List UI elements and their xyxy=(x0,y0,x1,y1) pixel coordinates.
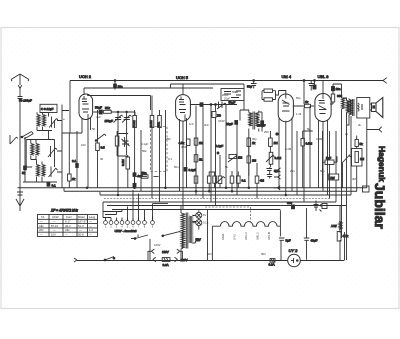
trimmer bank 2 xyxy=(122,112,131,155)
svg-text:TA: TA xyxy=(41,215,45,219)
coil B2 xyxy=(36,144,39,156)
svg-text:1M: 1M xyxy=(360,157,365,161)
svg-text:ZS: ZS xyxy=(217,114,221,118)
svg-text:20μF: 20μF xyxy=(226,122,233,126)
wires A xyxy=(37,112,52,130)
selector switch lever xyxy=(163,231,183,249)
cap 10nF xyxy=(332,87,335,91)
coil C1 xyxy=(37,165,40,177)
tube UCH5 pins xyxy=(180,84,187,209)
speaker field coil xyxy=(358,103,363,111)
wire x=77 xyxy=(76,131,78,188)
wire x297 xyxy=(296,131,298,195)
svg-text:50p: 50p xyxy=(296,96,301,100)
tube UM4 electrodes xyxy=(282,95,290,112)
trimmer A xyxy=(49,117,58,129)
resistor bottomrow 5 xyxy=(237,176,241,183)
svg-text:0.2M: 0.2M xyxy=(285,147,292,151)
svg-text:UM 4: UM 4 xyxy=(282,74,292,79)
tone switch xyxy=(343,136,357,192)
svg-text:Hagenuk: Hagenuk xyxy=(377,146,387,182)
wires drops UCH5 right xyxy=(196,105,226,206)
svg-text:5μF: 5μF xyxy=(286,239,291,243)
choke bottom xyxy=(339,222,342,230)
svg-text:0.1: 0.1 xyxy=(242,179,247,183)
svg-text:600: 600 xyxy=(337,94,342,98)
trimmer B xyxy=(48,146,57,157)
dial lamp 1 xyxy=(196,212,202,218)
table frame xyxy=(38,215,98,237)
junction dots xyxy=(210,104,212,106)
power transformer winding left xyxy=(181,213,185,248)
resistor bottomrow 4 xyxy=(230,176,234,183)
bus b7 xyxy=(112,209,280,211)
wires xyxy=(293,105,314,107)
coil C2 xyxy=(42,165,45,177)
svg-text:UCL3: UCL3 xyxy=(244,232,248,240)
resistor 0.3M mid xyxy=(126,157,130,169)
box contents xyxy=(224,91,241,98)
wires resistor tops xyxy=(118,96,166,203)
switch contacts left xyxy=(20,132,34,140)
junction UBL xyxy=(314,80,316,82)
resistor 4.5k xyxy=(186,139,190,146)
tube UM4 pins xyxy=(279,118,292,196)
grid box UM4 xyxy=(221,89,244,101)
tube UCH5 xyxy=(176,95,191,122)
cap blob left xyxy=(24,166,27,170)
junction dots buses xyxy=(225,187,227,189)
resistor right of UM4 xyxy=(305,104,311,107)
svg-text:100: 100 xyxy=(81,143,86,147)
svg-text:10n: 10n xyxy=(336,87,341,91)
mains plug xyxy=(74,258,77,262)
wire x=69.4 xyxy=(68,133,70,188)
cap blob 1nF xyxy=(200,103,203,107)
UKW terminals xyxy=(104,216,155,225)
svg-text:5nF: 5nF xyxy=(326,156,331,160)
bus y=95.5 xyxy=(88,94,151,96)
svg-text:UBL 3: UBL 3 xyxy=(318,74,330,79)
pot agc xyxy=(269,152,273,164)
resistor bottomrow 2 xyxy=(207,176,211,183)
junction blob IF2 xyxy=(276,133,278,135)
IF2 core xyxy=(253,112,255,130)
svg-text:0.1μF: 0.1μF xyxy=(141,142,148,146)
antenna xyxy=(11,74,29,96)
capacitor C-ant plates xyxy=(18,97,23,134)
output transformer secondary xyxy=(349,99,352,117)
wire to trimmers xyxy=(111,111,135,113)
speaker frame box xyxy=(357,98,370,119)
volume pot xyxy=(229,155,237,159)
tube UCH2 xyxy=(79,94,93,120)
trimmer right of UCH5 xyxy=(217,102,227,110)
wires mid cluster xyxy=(117,131,158,188)
box AW2 xyxy=(363,186,370,192)
selector lower arrows xyxy=(153,257,178,261)
svg-text:Mittel: Mittel xyxy=(78,215,85,219)
svg-text:4M: 4M xyxy=(352,177,357,181)
svg-text:0.5M: 0.5M xyxy=(306,142,313,146)
tube UCH2 electrodes xyxy=(82,96,89,120)
svg-text:250pF: 250pF xyxy=(257,124,266,128)
bus b2 xyxy=(64,190,357,192)
resistor anode 2 xyxy=(194,155,198,162)
IF2 wires xyxy=(237,84,262,195)
IF2 caps xyxy=(235,121,238,125)
svg-text:0.2A: 0.2A xyxy=(269,263,275,267)
transformer drops xyxy=(347,116,352,261)
cap blob bottom xyxy=(47,183,50,186)
svg-text:1M: 1M xyxy=(274,141,279,145)
bus b5 xyxy=(103,201,336,203)
svg-text:—: — xyxy=(40,233,43,237)
lamp labels xyxy=(203,213,209,225)
svg-text:20μF: 20μF xyxy=(222,93,229,97)
resistor anode 1 xyxy=(194,138,198,145)
svg-text:UKW: UKW xyxy=(218,119,225,123)
resistor 50n horizontal xyxy=(142,175,149,178)
speaker horn xyxy=(376,98,383,118)
svg-text:1k: 1k xyxy=(199,158,203,162)
resistor box b xyxy=(264,98,273,101)
svg-text:0.5: 0.5 xyxy=(101,146,106,150)
resistor mid xyxy=(115,136,119,146)
junction bus xyxy=(253,80,255,82)
svg-text:1M: 1M xyxy=(238,156,243,160)
svg-text:50: 50 xyxy=(92,127,96,131)
svg-text:1M: 1M xyxy=(199,141,204,145)
svg-text:Lang: Lang xyxy=(89,215,96,219)
svg-text:UM4: UM4 xyxy=(221,233,225,240)
svg-text:UKW - Anschluß: UKW - Anschluß xyxy=(115,229,137,233)
svg-text:—: — xyxy=(89,233,92,237)
svg-text:30: 30 xyxy=(100,157,104,161)
svg-text:150pF: 150pF xyxy=(105,119,114,123)
svg-text:UCH5: UCH5 xyxy=(267,232,271,240)
speaker magnet xyxy=(372,103,377,112)
decoupling cap xyxy=(251,81,257,89)
svg-text:51k: 51k xyxy=(157,122,161,127)
heater labels xyxy=(221,232,271,240)
coil A2 xyxy=(43,115,46,127)
cap at bus x115 xyxy=(114,80,116,82)
svg-text:20μF: 20μF xyxy=(224,97,230,101)
tube UBL3 xyxy=(315,94,331,122)
tube UM4 xyxy=(278,94,293,122)
wire UCH5 anode xyxy=(190,104,237,106)
power transformer winding right xyxy=(189,216,192,243)
bus b3 xyxy=(100,194,351,196)
coupling cap top xyxy=(99,110,102,114)
svg-text:50pF: 50pF xyxy=(229,101,236,105)
heater chain wire xyxy=(208,210,221,261)
svg-text:50n: 50n xyxy=(142,171,147,175)
svg-text:4.7k: 4.7k xyxy=(343,234,349,238)
jack TA3 xyxy=(274,186,281,190)
wire x=302.7 xyxy=(303,131,313,188)
svg-text:C 0-12pF: C 0-12pF xyxy=(41,107,54,111)
svg-text:25n: 25n xyxy=(290,169,295,173)
resistor 5k right xyxy=(355,140,358,147)
resistor bottomrow 3 xyxy=(213,176,217,183)
coil B1 xyxy=(31,144,34,156)
svg-text:1k: 1k xyxy=(72,177,76,181)
svg-text:4M: 4M xyxy=(260,179,265,183)
svg-text:50n: 50n xyxy=(320,169,325,173)
tone resistor inside xyxy=(355,152,358,163)
svg-text:30p: 30p xyxy=(252,137,257,141)
wire tube to cap xyxy=(93,111,103,113)
wire bus drop x=70 xyxy=(69,81,71,134)
UY2 electrodes xyxy=(291,258,298,263)
resistor 0.5M left xyxy=(301,139,304,147)
mains line xyxy=(77,260,345,262)
svg-text:0.3M: 0.3M xyxy=(121,159,125,166)
svg-text:1k: 1k xyxy=(305,100,309,104)
coil A1 xyxy=(37,115,40,127)
resistor det 2 xyxy=(247,156,251,163)
tube UCH5 electrodes xyxy=(179,97,186,121)
table columns xyxy=(49,215,88,237)
mains switch xyxy=(105,257,114,261)
tube UBL3 pins xyxy=(315,81,328,196)
label box C 0-12pF xyxy=(40,104,57,112)
heater chain right xyxy=(277,210,280,236)
svg-text:A/W: A/W xyxy=(331,224,337,228)
svg-text:48μF: 48μF xyxy=(311,239,318,243)
resistor 51k horizontal xyxy=(103,110,111,113)
box AW xyxy=(329,174,339,180)
svg-text:0.1: 0.1 xyxy=(168,157,172,161)
cap blob 0.1 xyxy=(184,168,187,172)
grid cap UBL xyxy=(313,85,316,89)
svg-text:3nF: 3nF xyxy=(204,123,209,127)
svg-text:100: 100 xyxy=(51,233,56,237)
band switch lower xyxy=(131,235,150,261)
resistor R-ag xyxy=(96,143,100,151)
tube UCH2 pins xyxy=(82,117,91,188)
svg-text:1nF: 1nF xyxy=(189,122,194,126)
wire bus-b1 left xyxy=(18,187,368,189)
svg-text:0.3M: 0.3M xyxy=(316,137,323,141)
choke 600ohm xyxy=(342,84,345,238)
trimmer bank 1 xyxy=(114,112,123,128)
wire x=87-97 drops xyxy=(62,110,98,188)
wire right edge cluster xyxy=(40,105,69,188)
voltage selector top xyxy=(148,249,182,260)
svg-text:0.5M: 0.5M xyxy=(181,145,188,149)
ground xyxy=(16,188,24,211)
terminal box small xyxy=(322,204,327,209)
svg-text:50-8: 50-8 xyxy=(78,233,84,237)
wire UM4 top xyxy=(279,91,286,96)
svg-text:6V: 6V xyxy=(203,213,206,217)
cluster frame xyxy=(26,140,54,168)
svg-text:0.8A: 0.8A xyxy=(163,263,169,267)
output transformer primary xyxy=(342,98,350,116)
resistor R-k xyxy=(68,174,72,181)
wire x=84 to tube xyxy=(83,88,85,95)
wire x310 xyxy=(309,106,311,188)
svg-text:Jubilar: Jubilar xyxy=(372,183,388,229)
jack TA1 xyxy=(274,168,281,172)
resistor box a xyxy=(264,89,273,92)
bus b6 xyxy=(107,205,347,207)
svg-text:+: + xyxy=(320,203,322,207)
wire mid right xyxy=(336,81,346,202)
wire x=270.5 xyxy=(269,131,271,167)
transformer wires xyxy=(181,206,200,261)
svg-text:4μF: 4μF xyxy=(96,115,101,119)
svg-text:50k: 50k xyxy=(142,149,147,153)
bus drops left xyxy=(64,187,100,195)
resistor bottomrow 6 xyxy=(255,176,259,183)
dashed heater feed xyxy=(205,207,251,222)
table text xyxy=(39,215,96,237)
svg-text:220V: 220V xyxy=(181,258,188,262)
svg-text:UKW: UKW xyxy=(52,215,59,219)
trimmer C xyxy=(49,167,58,178)
svg-text:250: 250 xyxy=(264,130,269,134)
svg-text:0.3M: 0.3M xyxy=(132,120,136,127)
svg-text:Kurz: Kurz xyxy=(66,215,72,219)
svg-text:50n: 50n xyxy=(174,165,179,169)
svg-text:50-100pF: 50-100pF xyxy=(19,99,32,103)
wires boxes xyxy=(262,91,279,100)
UKW numbers xyxy=(105,225,154,229)
svg-text:UY 2: UY 2 xyxy=(289,248,299,253)
heater humps xyxy=(220,222,277,227)
box ZS xyxy=(212,112,216,118)
bus y=88 xyxy=(84,87,213,89)
fuse xyxy=(162,258,170,262)
caps 5uF diagonal xyxy=(267,167,273,178)
resistor 0.3M v1 xyxy=(133,116,137,128)
svg-text:0.1: 0.1 xyxy=(72,159,77,163)
switch near UCH2 xyxy=(96,134,106,141)
resistor agc xyxy=(269,138,273,146)
svg-text:25k: 25k xyxy=(166,137,171,141)
wire antenna to bus xyxy=(19,133,21,188)
wires cluster B C xyxy=(25,137,42,182)
wires UBL right xyxy=(330,84,342,104)
svg-text:10n: 10n xyxy=(118,85,123,89)
resistor det 1 xyxy=(247,138,251,146)
extra value labels xyxy=(63,90,362,256)
jack TA2 xyxy=(274,175,281,179)
svg-text:UCH 2: UCH 2 xyxy=(79,74,92,79)
vertical x=304 xyxy=(303,81,305,203)
cap 600 xyxy=(292,205,295,209)
resistor 51k v3 xyxy=(158,116,162,128)
svg-text:51k: 51k xyxy=(105,106,110,110)
IF2 transformer coils xyxy=(249,113,259,127)
UKW terminal wires bundle xyxy=(103,190,168,221)
trimmer mid xyxy=(122,137,130,147)
capacitor 0.1uF xyxy=(76,164,79,168)
svg-text:0.1: 0.1 xyxy=(52,184,57,188)
svg-text:0.1μF: 0.1μF xyxy=(216,144,224,148)
dial lamp 2 xyxy=(196,220,202,226)
resistor 0.3M v2 xyxy=(150,116,154,128)
tube UBL3 electrodes xyxy=(319,95,327,114)
wires cluster bottom xyxy=(23,181,57,183)
table rows xyxy=(38,219,98,232)
svg-text:1M: 1M xyxy=(252,159,257,163)
svg-text:UCH 5: UCH 5 xyxy=(176,75,189,80)
speaker dot xyxy=(373,106,375,108)
bus b4 dashed xyxy=(104,198,330,200)
svg-text:AW: AW xyxy=(330,176,335,180)
wires 5nF xyxy=(323,131,338,199)
cap 48uF xyxy=(304,208,310,260)
decoupling cap 2 xyxy=(309,81,315,91)
svg-text:600: 600 xyxy=(287,201,292,205)
switch far left xyxy=(10,135,18,144)
svg-text:UBL3: UBL3 xyxy=(256,232,260,240)
transformer core xyxy=(353,99,354,116)
jack Y xyxy=(367,127,382,133)
speaker wires xyxy=(367,104,372,188)
svg-text:110V: 110V xyxy=(162,250,169,254)
wires bottomrow xyxy=(196,145,257,198)
resistor 0.3M right xyxy=(331,94,334,102)
svg-text:1.2k: 1.2k xyxy=(296,112,302,116)
junction xyxy=(21,136,23,138)
svg-text:0.3M: 0.3M xyxy=(149,120,153,127)
svg-text:ZF = 470/472 kHz: ZF = 470/472 kHz xyxy=(50,209,78,213)
svg-text:50V: 50V xyxy=(196,238,201,242)
svg-text:5k: 5k xyxy=(360,142,364,146)
connector top-right xyxy=(383,78,387,84)
svg-text:0.1μF: 0.1μF xyxy=(189,168,197,172)
lamp wires xyxy=(192,210,198,229)
IF can dashed box xyxy=(151,127,168,172)
bus y=84 xyxy=(171,84,245,88)
cap blob mid1 xyxy=(133,173,136,177)
bottom right verticals xyxy=(340,206,345,261)
cap 5uF xyxy=(279,238,285,260)
svg-text:50V: 50V xyxy=(261,252,266,256)
svg-text:0.1M: 0.1M xyxy=(275,156,282,160)
tone pot xyxy=(217,155,225,188)
cap plus xyxy=(314,201,322,212)
fuse 0.2A xyxy=(270,259,275,263)
power transformer core xyxy=(186,213,188,249)
tone box xyxy=(352,149,363,167)
svg-text:500: 500 xyxy=(232,90,237,94)
tube UY2 xyxy=(288,254,301,267)
cap 5nF box xyxy=(325,160,334,165)
svg-text:50μF: 50μF xyxy=(95,106,102,110)
svg-text:—: — xyxy=(65,233,68,237)
svg-text:100V: 100V xyxy=(154,243,161,247)
svg-text:UY2: UY2 xyxy=(233,234,237,240)
svg-text:50p: 50p xyxy=(247,85,252,89)
bus top y=80.5 xyxy=(70,80,383,82)
resistor bottomrow 1 xyxy=(194,176,198,183)
svg-text:1k: 1k xyxy=(252,141,256,145)
cap blob mid2 xyxy=(133,183,136,187)
